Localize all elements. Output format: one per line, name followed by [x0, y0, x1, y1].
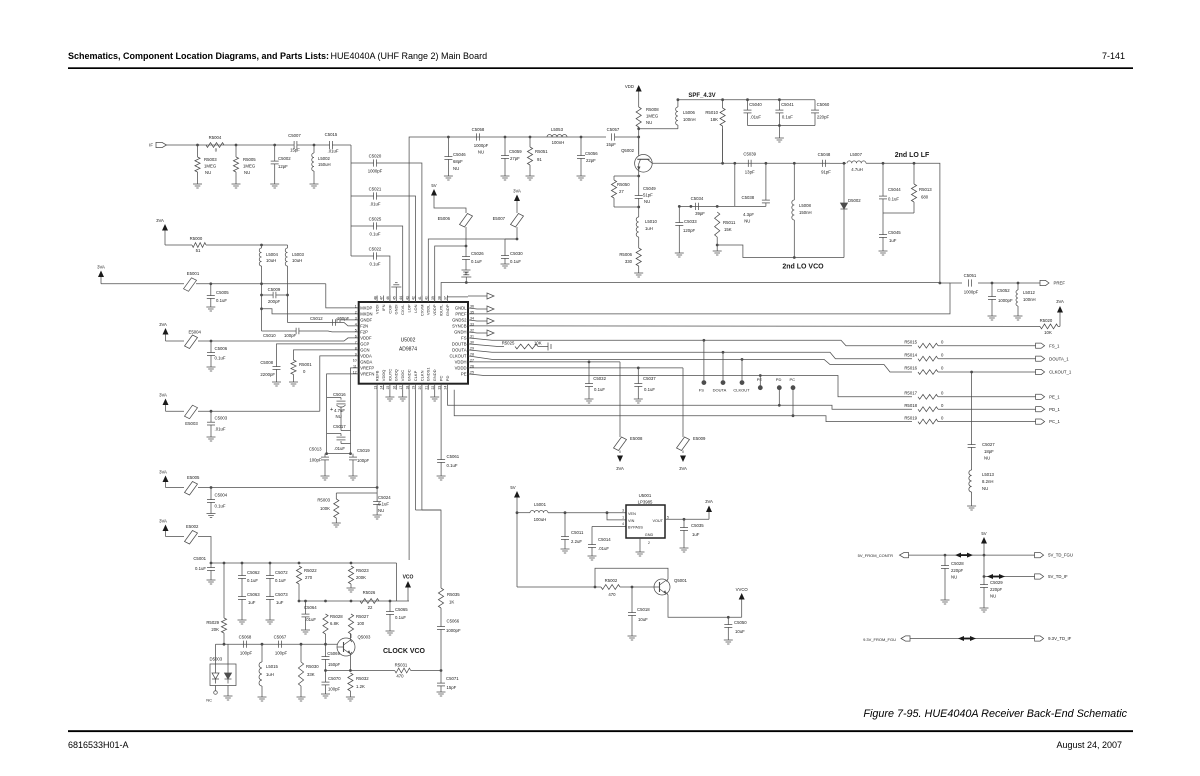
svg-text:120pF: 120pF: [683, 228, 696, 233]
svg-text:C5068: C5068: [239, 635, 252, 640]
svg-text:C5044: C5044: [888, 187, 901, 192]
svg-text:36: 36: [470, 304, 474, 308]
svg-text:R5026: R5026: [363, 590, 376, 595]
svg-text:91pF: 91pF: [821, 170, 831, 175]
svg-text:VDDC: VDDC: [400, 370, 405, 381]
svg-text:.01uF: .01uF: [328, 149, 339, 154]
svg-text:9: 9: [355, 352, 357, 356]
svg-text:R5023: R5023: [356, 568, 369, 573]
svg-text:13pF: 13pF: [745, 170, 755, 175]
svg-text:IOUTC: IOUTC: [387, 369, 392, 382]
svg-text:38: 38: [437, 296, 441, 300]
svg-text:1000pF: 1000pF: [368, 169, 383, 174]
svg-text:91: 91: [537, 157, 542, 162]
svg-text:0.1uF: 0.1uF: [275, 578, 286, 583]
svg-text:0.1uF: 0.1uF: [447, 463, 458, 468]
svg-text:PD: PD: [445, 376, 450, 382]
svg-text:10uH: 10uH: [292, 258, 302, 263]
svg-text:C5012: C5012: [310, 316, 323, 321]
svg-text:GND: GND: [645, 533, 654, 537]
svg-text:150uH: 150uH: [318, 162, 331, 167]
svg-text:DOUTA: DOUTA: [713, 388, 727, 393]
svg-text:E5009: E5009: [693, 436, 706, 441]
svg-text:4: 4: [622, 522, 624, 526]
svg-text:E5001: E5001: [187, 271, 200, 276]
svg-text:5: 5: [355, 328, 357, 332]
svg-text:0.1uF: 0.1uF: [247, 578, 258, 583]
svg-text:R5029: R5029: [206, 620, 219, 625]
svg-text:2.2uF: 2.2uF: [571, 539, 582, 544]
svg-text:LON: LON: [413, 304, 418, 312]
svg-text:DOUTB: DOUTB: [452, 342, 467, 347]
svg-text:27: 27: [619, 189, 624, 194]
svg-text:R5013: R5013: [919, 187, 932, 192]
svg-text:1uF: 1uF: [248, 600, 256, 605]
svg-text:R5004: R5004: [209, 135, 222, 140]
svg-text:470: 470: [396, 674, 404, 679]
svg-text:C5056: C5056: [585, 151, 598, 156]
svg-text:C5021: C5021: [369, 187, 382, 192]
svg-text:L5007: L5007: [850, 152, 863, 157]
svg-text:C5002: C5002: [278, 156, 291, 161]
svg-text:R5008: R5008: [646, 107, 659, 112]
svg-text:L5003: L5003: [292, 252, 305, 257]
svg-text:R5000: R5000: [190, 236, 203, 241]
svg-text:C5019: C5019: [357, 448, 370, 453]
svg-text:5: 5: [667, 516, 669, 520]
svg-text:12pF: 12pF: [278, 164, 288, 169]
svg-text:R5031: R5031: [395, 663, 408, 668]
svg-text:C5073: C5073: [275, 592, 288, 597]
svg-text:6: 6: [355, 334, 357, 338]
svg-text:IF: IF: [149, 143, 153, 148]
svg-text:Schematics, Component Location: Schematics, Component Location Diagrams,…: [68, 51, 329, 61]
svg-text:C5025: C5025: [369, 217, 382, 222]
svg-text:NU: NU: [984, 456, 990, 461]
svg-text:C5013: C5013: [309, 447, 322, 452]
svg-text:6.8K: 6.8K: [330, 621, 339, 626]
svg-text:100uH: 100uH: [534, 517, 547, 522]
svg-text:1uF: 1uF: [692, 532, 700, 537]
svg-text:FS: FS: [461, 336, 467, 341]
svg-text:.01uF: .01uF: [750, 115, 761, 120]
svg-text:R5016: R5016: [904, 366, 917, 371]
svg-text:32: 32: [470, 328, 474, 332]
svg-text:BYPASS: BYPASS: [628, 526, 643, 530]
svg-text:GCP: GCP: [360, 342, 369, 347]
svg-text:1uF: 1uF: [889, 238, 897, 243]
svg-text:15pF: 15pF: [606, 142, 616, 147]
svg-text:10uF: 10uF: [638, 617, 648, 622]
svg-text:R5002: R5002: [605, 578, 618, 583]
svg-text:150pF: 150pF: [328, 662, 341, 667]
svg-text:MXDN: MXDN: [360, 312, 372, 317]
svg-text:R5035: R5035: [447, 592, 460, 597]
svg-text:.01uF: .01uF: [215, 427, 226, 432]
svg-text:GNDI: GNDI: [394, 305, 399, 315]
svg-text:LOP: LOP: [407, 304, 412, 312]
svg-text:D5003: D5003: [210, 657, 223, 662]
svg-text:22: 22: [431, 386, 435, 390]
svg-text:0.1uF: 0.1uF: [395, 615, 406, 620]
svg-text:1MEG: 1MEG: [646, 114, 659, 119]
svg-text:C5063: C5063: [247, 592, 260, 597]
svg-text:40: 40: [425, 296, 429, 300]
svg-text:GNDH: GNDH: [454, 330, 466, 335]
svg-text:GNDQ: GNDQ: [394, 369, 399, 381]
svg-text:PREF: PREF: [1054, 281, 1066, 286]
svg-text:C5029: C5029: [990, 580, 1003, 585]
svg-text:3VA: 3VA: [97, 265, 105, 270]
svg-text:NU: NU: [478, 150, 484, 155]
svg-text:SYNCB: SYNCB: [452, 324, 467, 329]
svg-text:GNDP: GNDP: [445, 304, 450, 316]
svg-text:NU: NU: [982, 486, 988, 491]
svg-text:200pF: 200pF: [268, 299, 281, 304]
svg-text:CLKOUT_1: CLKOUT_1: [1049, 370, 1072, 375]
svg-text:C5030: C5030: [510, 251, 523, 256]
svg-text:10uF: 10uF: [735, 629, 745, 634]
svg-text:IFN: IFN: [381, 304, 386, 311]
svg-text:U5001: U5001: [639, 493, 652, 498]
svg-text:CLKOUT: CLKOUT: [450, 354, 467, 359]
svg-text:1uH: 1uH: [266, 672, 274, 677]
svg-text:C5024: C5024: [378, 495, 391, 500]
svg-text:DOUTA_1: DOUTA_1: [1049, 356, 1069, 361]
svg-text:R5018: R5018: [904, 403, 917, 408]
svg-text:22: 22: [368, 605, 373, 610]
svg-text:43: 43: [405, 296, 409, 300]
svg-text:C5003: C5003: [215, 416, 228, 421]
svg-text:C5008: C5008: [260, 360, 273, 365]
svg-text:1MEG: 1MEG: [243, 164, 256, 169]
svg-text:C5067: C5067: [274, 635, 287, 640]
svg-text:C5032: C5032: [593, 376, 606, 381]
svg-text:5V: 5V: [431, 183, 436, 188]
svg-text:R5003: R5003: [204, 157, 217, 162]
svg-text:E5007: E5007: [493, 216, 506, 221]
svg-text:0.1uF: 0.1uF: [888, 197, 899, 202]
svg-text:41: 41: [418, 296, 422, 300]
svg-text:C5034: C5034: [691, 196, 704, 201]
svg-text:L5010: L5010: [645, 219, 658, 224]
svg-text:C5051: C5051: [964, 273, 977, 278]
svg-text:R5027: R5027: [356, 614, 369, 619]
svg-text:27pF: 27pF: [510, 156, 520, 161]
svg-text:C5062: C5062: [247, 570, 260, 575]
svg-text:10: 10: [353, 358, 357, 362]
svg-text:1uH: 1uH: [645, 226, 653, 231]
svg-text:C5040: C5040: [749, 102, 762, 107]
svg-text:C5011: C5011: [571, 530, 584, 535]
svg-text:L5008: L5008: [799, 203, 812, 208]
svg-text:R5020: R5020: [1040, 318, 1053, 323]
svg-text:NU: NU: [644, 199, 650, 204]
svg-text:L5013: L5013: [982, 472, 995, 477]
svg-text:R5051: R5051: [535, 149, 548, 154]
svg-text:VDDA: VDDA: [360, 354, 372, 359]
svg-text:CXVM: CXVM: [419, 305, 424, 317]
svg-text:NU: NU: [205, 170, 211, 175]
svg-text:HUE4040A (UHF Range 2) Main Bo: HUE4040A (UHF Range 2) Main Board: [331, 51, 488, 61]
svg-text:NU: NU: [244, 170, 250, 175]
svg-text:+: +: [330, 407, 333, 413]
svg-text:3VA: 3VA: [513, 189, 521, 194]
svg-text:DOUTA: DOUTA: [452, 348, 467, 353]
svg-text:45: 45: [393, 296, 397, 300]
svg-text:220pF: 220pF: [951, 568, 964, 573]
svg-text:4.7uF: 4.7uF: [334, 408, 345, 413]
svg-text:16: 16: [393, 386, 397, 390]
svg-text:C5072: C5072: [275, 570, 288, 575]
svg-text:CLKP: CLKP: [413, 370, 418, 381]
svg-text:5V_TD_IF: 5V_TD_IF: [1048, 574, 1068, 579]
svg-text:C5060: C5060: [817, 102, 830, 107]
svg-text:34: 34: [470, 316, 474, 320]
svg-text:100nH: 100nH: [1023, 297, 1036, 302]
svg-text:R5003: R5003: [317, 498, 330, 503]
svg-text:NU: NU: [646, 120, 652, 125]
svg-text:C5070: C5070: [328, 676, 341, 681]
svg-text:L5015: L5015: [266, 664, 279, 669]
svg-text:R5010: R5010: [705, 110, 718, 115]
svg-text:100pF: 100pF: [328, 687, 341, 692]
svg-text:51pF: 51pF: [643, 193, 653, 198]
svg-text:15pF: 15pF: [447, 685, 457, 690]
svg-text:33K: 33K: [307, 672, 315, 677]
svg-text:200K: 200K: [356, 575, 366, 580]
svg-text:E5002: E5002: [186, 524, 199, 529]
svg-text:Q5003: Q5003: [358, 635, 372, 640]
svg-text:R5011: R5011: [723, 220, 736, 225]
svg-text:1: 1: [622, 516, 624, 520]
svg-text:2nd LO LF: 2nd LO LF: [895, 152, 930, 159]
svg-text:3VA: 3VA: [616, 466, 624, 471]
svg-text:R5030: R5030: [306, 664, 319, 669]
svg-text:.01uF: .01uF: [334, 446, 345, 451]
svg-text:17: 17: [399, 386, 403, 390]
svg-text:1000pF: 1000pF: [474, 143, 489, 148]
svg-text:21: 21: [425, 386, 429, 390]
svg-text:GNDF: GNDF: [360, 318, 372, 323]
svg-text:0.1uF: 0.1uF: [644, 387, 655, 392]
svg-text:9.3V_TD_IF: 9.3V_TD_IF: [1048, 636, 1072, 641]
svg-text:C5001: C5001: [193, 556, 206, 561]
svg-text:GNDS2: GNDS2: [452, 318, 467, 323]
svg-text:44: 44: [399, 296, 403, 300]
svg-text:NU: NU: [378, 508, 384, 513]
svg-text:100nH: 100nH: [552, 140, 565, 145]
svg-text:23: 23: [437, 386, 441, 390]
svg-text:GNDA: GNDA: [360, 360, 372, 365]
svg-text:1MEG: 1MEG: [204, 164, 217, 169]
svg-text:220pF: 220pF: [817, 115, 830, 120]
svg-text:VDDP: VDDP: [432, 304, 437, 315]
svg-text:C5071: C5071: [446, 676, 459, 681]
svg-text:100pF: 100pF: [240, 651, 253, 656]
svg-text:L5053: L5053: [551, 127, 564, 132]
svg-text:42: 42: [412, 296, 416, 300]
svg-text:5V: 5V: [510, 485, 515, 490]
svg-text:CLKOUT: CLKOUT: [733, 388, 750, 393]
svg-text:VDD: VDD: [625, 84, 634, 89]
svg-text:E5005: E5005: [187, 475, 200, 480]
svg-text:Figure 7-95. HUE4040A Receiver: Figure 7-95. HUE4040A Receiver Back-End …: [863, 708, 1127, 720]
svg-text:18K: 18K: [710, 117, 718, 122]
svg-text:C5035: C5035: [691, 523, 704, 528]
svg-text:R5015: R5015: [904, 339, 917, 344]
svg-text:15K: 15K: [724, 227, 732, 232]
svg-text:R5017: R5017: [904, 391, 917, 396]
svg-text:1: 1: [355, 304, 357, 308]
svg-text:C5007: C5007: [288, 133, 301, 138]
svg-text:13: 13: [373, 386, 377, 390]
svg-text:C5050: C5050: [734, 620, 747, 625]
svg-text:51: 51: [196, 248, 201, 253]
svg-text:5V_FROM_CONTR: 5V_FROM_CONTR: [858, 553, 893, 558]
svg-text:100: 100: [357, 621, 365, 626]
svg-text:150nH: 150nH: [799, 210, 812, 215]
svg-text:0.1uF: 0.1uF: [782, 115, 793, 120]
svg-text:PE_1: PE_1: [1049, 394, 1060, 399]
svg-text:VCO: VCO: [403, 575, 414, 581]
svg-text:R5022: R5022: [304, 568, 317, 573]
svg-text:AD9874: AD9874: [399, 347, 417, 353]
svg-text:PD: PD: [776, 377, 782, 382]
svg-text:C5037: C5037: [643, 376, 656, 381]
svg-text:3VA: 3VA: [679, 466, 687, 471]
svg-text:100pF: 100pF: [309, 458, 322, 463]
svg-text:22pF: 22pF: [586, 158, 596, 163]
svg-text:0.1uF: 0.1uF: [378, 502, 389, 507]
svg-text:220pF: 220pF: [990, 587, 1003, 592]
svg-text:PC: PC: [439, 376, 444, 382]
svg-text:C5028: C5028: [951, 561, 964, 566]
svg-text:C5004: C5004: [215, 493, 228, 498]
svg-text:LP3985: LP3985: [638, 500, 653, 505]
svg-text:CXVL: CXVL: [400, 304, 405, 315]
svg-text:C5026: C5026: [471, 251, 484, 256]
svg-text:19: 19: [412, 386, 416, 390]
svg-text:E5008: E5008: [630, 436, 643, 441]
svg-text:0.1uF: 0.1uF: [471, 259, 482, 264]
svg-text:0.1uF: 0.1uF: [370, 262, 381, 267]
svg-text:F2P: F2P: [360, 330, 368, 335]
svg-text:R5028: R5028: [330, 614, 343, 619]
svg-text:1uF: 1uF: [276, 600, 284, 605]
svg-text:D5002: D5002: [848, 198, 861, 203]
svg-text:R5014: R5014: [904, 352, 917, 357]
svg-text:L5002: L5002: [318, 156, 331, 161]
svg-text:C5066: C5066: [447, 619, 460, 624]
svg-text:FS_1: FS_1: [1049, 343, 1060, 348]
svg-text:0.1uF: 0.1uF: [216, 298, 227, 303]
svg-text:PC: PC: [790, 377, 796, 382]
svg-text:4: 4: [355, 322, 357, 326]
svg-text:L5012: L5012: [1023, 290, 1036, 295]
svg-text:3VA: 3VA: [159, 393, 167, 398]
svg-text:46: 46: [386, 296, 390, 300]
svg-text:C5033: C5033: [684, 219, 697, 224]
svg-text:R5019: R5019: [904, 415, 917, 420]
svg-text:15: 15: [386, 386, 390, 390]
svg-text:39pF: 39pF: [695, 211, 705, 216]
svg-text:PC_1: PC_1: [1049, 419, 1060, 424]
svg-text:NC: NC: [206, 698, 212, 703]
svg-text:C5016: C5016: [333, 392, 346, 397]
svg-text:3: 3: [355, 316, 357, 320]
svg-text:C5045: C5045: [888, 230, 901, 235]
svg-text:U5002: U5002: [401, 338, 416, 344]
svg-text:0.1uF: 0.1uF: [510, 259, 521, 264]
svg-text:C5005: C5005: [216, 290, 229, 295]
svg-text:C5041: C5041: [781, 102, 794, 107]
svg-text:R5005: R5005: [243, 157, 256, 162]
svg-text:5V: 5V: [981, 531, 986, 536]
svg-text:VVCO: VVCO: [736, 587, 749, 592]
svg-text:C5049: C5049: [643, 186, 656, 191]
svg-text:48: 48: [373, 296, 377, 300]
svg-text:VEN: VEN: [628, 512, 636, 516]
svg-text:L5006: L5006: [683, 110, 696, 115]
svg-text:C5057: C5057: [607, 127, 620, 132]
svg-text:MXDP: MXDP: [360, 306, 372, 311]
svg-text:100pF: 100pF: [357, 458, 370, 463]
svg-text:C5058: C5058: [472, 127, 485, 132]
svg-text:NU: NU: [951, 575, 957, 580]
svg-text:1.2K: 1.2K: [356, 684, 365, 689]
svg-text:10K: 10K: [534, 340, 542, 345]
svg-text:C5010: C5010: [263, 333, 276, 338]
svg-text:2200pF: 2200pF: [260, 372, 275, 377]
svg-text:47: 47: [380, 296, 384, 300]
svg-text:NU: NU: [744, 219, 750, 224]
svg-text:3VA: 3VA: [159, 519, 167, 524]
svg-text:GCN: GCN: [360, 348, 369, 353]
svg-text:C5015: C5015: [325, 132, 338, 137]
svg-text:GNDS1: GNDS1: [426, 367, 431, 382]
svg-text:CXIF: CXIF: [387, 304, 392, 314]
svg-text:270: 270: [305, 575, 313, 580]
svg-text:L5001: L5001: [534, 502, 547, 507]
svg-text:GNDD: GNDD: [432, 369, 437, 381]
svg-text:C5048: C5048: [818, 152, 831, 157]
svg-text:4.3pF: 4.3pF: [743, 212, 754, 217]
svg-text:R5025: R5025: [502, 340, 515, 345]
svg-text:C5038: C5038: [742, 195, 755, 200]
svg-text:C5017: C5017: [333, 424, 346, 429]
svg-text:0.1uF: 0.1uF: [215, 504, 226, 509]
svg-text:C5059: C5059: [509, 149, 522, 154]
svg-text:100pF: 100pF: [284, 333, 297, 338]
svg-text:F2N: F2N: [360, 324, 368, 329]
svg-text:VDDD: VDDD: [455, 366, 467, 371]
svg-text:VDDL: VDDL: [426, 304, 431, 315]
svg-text:0.1uF: 0.1uF: [215, 356, 226, 361]
svg-text:6816533H01-A: 6816533H01-A: [68, 740, 129, 750]
svg-text:VIN: VIN: [628, 519, 635, 523]
svg-text:C5061: C5061: [447, 454, 460, 459]
svg-text:VOUT: VOUT: [652, 519, 663, 523]
svg-text:330: 330: [625, 259, 633, 264]
svg-text:GNDL: GNDL: [455, 306, 467, 311]
svg-text:20: 20: [418, 386, 422, 390]
svg-text:9.3V_FROM_FGU: 9.3V_FROM_FGU: [863, 637, 896, 642]
svg-text:PE: PE: [461, 372, 467, 377]
svg-text:1000pF: 1000pF: [998, 298, 1013, 303]
svg-text:VDDI: VDDI: [375, 305, 380, 315]
svg-text:VDDF: VDDF: [360, 336, 372, 341]
